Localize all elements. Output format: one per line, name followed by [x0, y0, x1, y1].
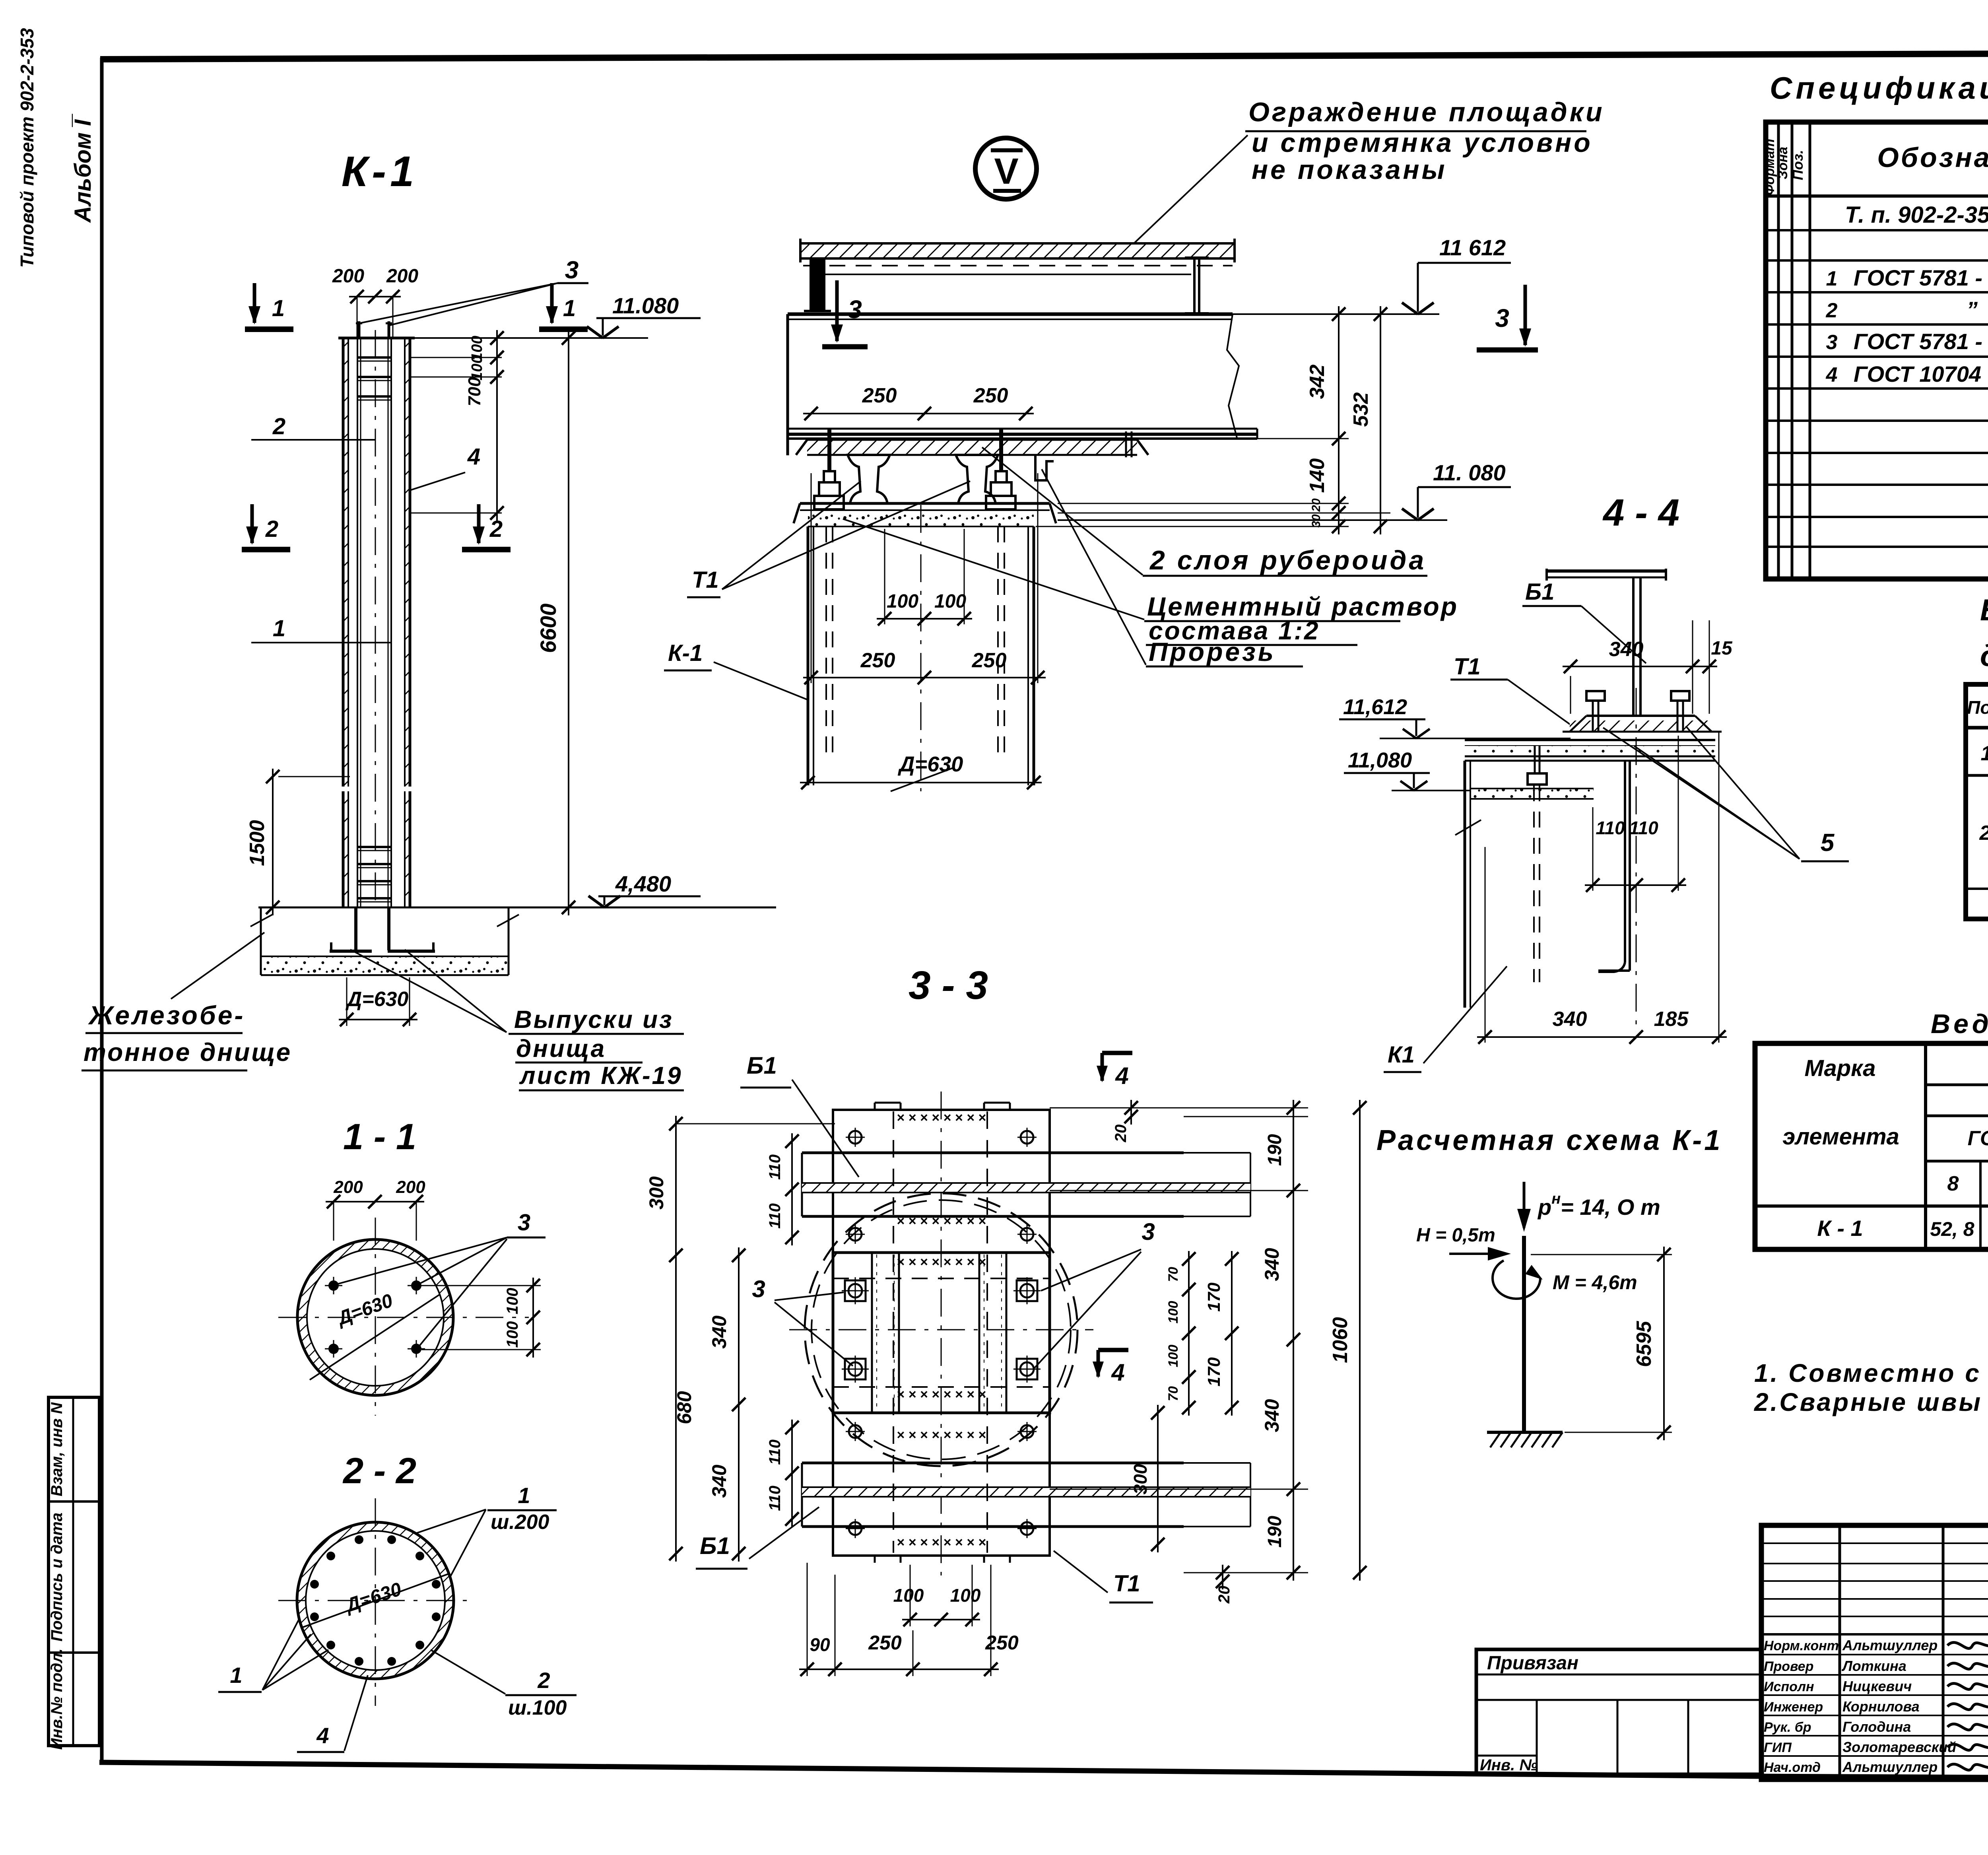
3-3 section marker 4 top	[1102, 1051, 1132, 1055]
svg-text:Выпуски из: Выпуски из	[514, 1006, 674, 1033]
svg-text:110: 110	[766, 1439, 784, 1465]
svg-text:2: 2	[1979, 822, 1988, 845]
svg-text:Ограждение площадки: Ограждение площадки	[1248, 97, 1605, 127]
beam B1 bottom flange	[788, 428, 1257, 430]
column K-1 centerline	[375, 330, 376, 907]
svg-text:Ведомость стержней: Ведомость стержней	[1980, 593, 1988, 627]
svg-text:Взам, инв N: Взам, инв N	[48, 1402, 66, 1496]
3-3 stiffener plate verticals with weld seams	[871, 1253, 873, 1413]
svg-text:1: 1	[272, 295, 285, 321]
svg-text:4 - 4: 4 - 4	[1602, 491, 1679, 534]
section marker 3 left	[835, 280, 839, 341]
svg-text:ГОСТ 10704 - 76*: ГОСТ 10704 - 76*	[1854, 361, 1988, 387]
svg-text:340: 340	[1609, 638, 1644, 661]
svg-text:170: 170	[1204, 1282, 1224, 1312]
3-3 base plate square	[833, 1253, 1050, 1413]
svg-text:300: 300	[1130, 1464, 1151, 1494]
column cap plate with bent edges	[794, 503, 800, 523]
scheme column bar	[1522, 1236, 1526, 1432]
svg-text:100: 100	[934, 591, 966, 612]
svg-text:и стремянка условно: и стремянка условно	[1252, 128, 1593, 158]
4-4 I-beam B1 end view top flange	[1547, 569, 1666, 573]
3-3 hidden tube circles dashed	[805, 1193, 1077, 1466]
svg-text:К-1: К-1	[342, 147, 418, 195]
svg-text:2.Сварные швы приняты hш =: 2.Сварные швы приняты hш = 6 мм.	[1754, 1388, 1988, 1416]
svg-text:Типовой проект 902-2-353: Типовой проект 902-2-353	[17, 28, 37, 268]
3-3 lower paddle plate	[833, 1413, 1050, 1556]
3-3 beam B1 bottom hatched strip	[802, 1487, 1250, 1497]
stirrup rungs bottom of column	[357, 846, 392, 848]
svg-text:Альтшуллер: Альтшуллер	[1842, 1759, 1938, 1775]
svg-text:90: 90	[810, 1634, 830, 1655]
stud right end	[1125, 431, 1127, 457]
svg-text:Т. п. 902-2-353-КЖ-19: Т. п. 902-2-353-КЖ-19	[1845, 202, 1988, 228]
level mark 11.080 node view	[1058, 519, 1447, 521]
svg-text:1: 1	[518, 1483, 530, 1508]
svg-text:Н = 0,5т: Н = 0,5т	[1416, 1225, 1495, 1246]
svg-text:3: 3	[1142, 1218, 1155, 1245]
svg-text:Д=630: Д=630	[898, 752, 963, 776]
svg-text:2: 2	[265, 516, 278, 542]
svg-text:Б1: Б1	[747, 1052, 777, 1079]
svg-text:V: V	[994, 151, 1018, 192]
scheme H arrow	[1449, 1253, 1506, 1255]
svg-text:3: 3	[1826, 331, 1838, 354]
svg-text:× × × × × × × ×: × × × × × × × ×	[897, 1428, 986, 1443]
leader from note to platform	[1134, 135, 1248, 243]
specification table grid	[1766, 122, 1988, 579]
svg-text:М = 4,6т: М = 4,6т	[1553, 1271, 1637, 1294]
4-4 bolts both sides of web	[1592, 701, 1594, 732]
svg-text:200: 200	[333, 1177, 363, 1197]
3-3 anchor bolt lower-right	[1017, 1359, 1037, 1379]
svg-text:100: 100	[504, 1288, 521, 1315]
dimension 6600 vertical	[568, 330, 569, 915]
svg-text:1500: 1500	[246, 820, 269, 866]
column tube walls below cap	[807, 526, 810, 785]
svg-text:2 - 2: 2 - 2	[342, 1451, 416, 1491]
level mark 11.612 node view	[1233, 313, 1439, 315]
svg-text:4: 4	[1111, 1359, 1124, 1386]
svg-text:4,480: 4,480	[615, 871, 671, 896]
foundation slab speckle band	[262, 956, 507, 974]
svg-text:250: 250	[860, 649, 895, 672]
svg-text:1: 1	[563, 295, 576, 321]
sheet frame bottom border	[99, 1762, 1988, 1780]
dimension 532 vertical	[1380, 306, 1381, 534]
svg-text:190: 190	[1264, 1516, 1285, 1548]
4-4 centerline	[1636, 688, 1637, 1030]
3-3 left dimension 110 110 upper	[791, 1133, 793, 1245]
3-3 lower paddle bolt holes	[849, 1425, 862, 1438]
svg-text:Т1: Т1	[692, 567, 719, 593]
section 1-1 anchor bars (4 dots)	[328, 1280, 339, 1291]
slab corner break marks	[250, 915, 272, 927]
column K-1 left wall (tube) with hatch	[342, 338, 345, 787]
section 2-2 centerlines	[278, 1600, 471, 1601]
svg-text:2 слоя рубероида: 2 слоя рубероида	[1149, 545, 1426, 575]
svg-text:200: 200	[332, 266, 364, 287]
column centerline node V	[920, 505, 922, 791]
svg-text:110: 110	[766, 1203, 784, 1229]
svg-text:Лоткина: Лоткина	[1841, 1658, 1906, 1674]
svg-text:100: 100	[893, 1585, 924, 1606]
sheet frame top border	[100, 52, 1988, 59]
svg-text:К1: К1	[1388, 1042, 1415, 1068]
svg-text:Т1: Т1	[1113, 1571, 1140, 1597]
extension line column top right	[415, 337, 648, 339]
svg-text:К-1: К-1	[668, 640, 703, 666]
svg-text:11. 080: 11. 080	[1433, 460, 1506, 485]
svg-text:100: 100	[950, 1585, 981, 1606]
3-3 beam B1 top crossing	[802, 1152, 1184, 1154]
4-4 inner concrete speckled band	[1470, 789, 1594, 799]
svg-text:250: 250	[972, 649, 1007, 672]
svg-text:ГОСТ 5781 - 81: ГОСТ 5781 - 81	[1854, 329, 1988, 354]
bearing plate hatched under beam	[807, 440, 1137, 455]
attachment stamp box Привязан	[1476, 1649, 1761, 1774]
svg-text:Альтшуллер: Альтшуллер	[1842, 1637, 1938, 1653]
3-3 anchor bolt lower-left	[845, 1359, 866, 1379]
slot bracket right (прорезь)	[1035, 455, 1054, 480]
svg-text:20: 20	[1112, 1125, 1130, 1143]
4-4 anchor bolt dashed	[1533, 785, 1535, 982]
svg-text:Зона: Зона	[1775, 147, 1790, 179]
svg-text:140: 140	[1306, 458, 1329, 493]
svg-text:100: 100	[887, 591, 918, 612]
svg-text:100: 100	[504, 1321, 521, 1348]
platform rail line	[825, 274, 1191, 275]
svg-text:ш.200: ш.200	[491, 1511, 549, 1534]
platform hidden edge dashed	[803, 265, 1233, 266]
svg-text:днища: днища	[516, 1035, 606, 1062]
svg-text:Прорезь: Прорезь	[1149, 637, 1276, 666]
cement mortar layer (speckled)	[808, 513, 1034, 526]
section marker 3 right	[1524, 285, 1527, 345]
svg-text:Марка: Марка	[1804, 1055, 1875, 1081]
svg-text:× × × × × × × ×: × × × × × × × ×	[897, 1535, 986, 1550]
svg-text:Альбом I̅: Альбом I̅	[70, 113, 96, 223]
svg-text:190: 190	[1264, 1134, 1285, 1166]
svg-text:Рук. бр: Рук. бр	[1764, 1720, 1811, 1735]
svg-text:11 612: 11 612	[1439, 235, 1506, 260]
svg-text:ГОСТ 5781 - 81: ГОСТ 5781 - 81	[1854, 265, 1988, 290]
platform edge channel left (dark section)	[810, 258, 825, 311]
svg-text:К - 1: К - 1	[1817, 1216, 1863, 1241]
column K-1 rebar cage verticals	[357, 338, 358, 907]
section marker 1 left	[253, 283, 256, 323]
svg-text:× × × × × × × ×: × × × × × × × ×	[897, 1110, 986, 1125]
extension lines for beam depth dims	[1257, 438, 1349, 439]
title block revision rows	[1761, 1542, 1988, 1544]
svg-text:110: 110	[1629, 818, 1658, 838]
svg-text:110: 110	[766, 1154, 784, 1180]
svg-text:× × × × × × × ×: × × × × × × × ×	[897, 1387, 986, 1402]
4-4 dimension 340 / 15 top	[1570, 676, 1571, 714]
svg-text:Исполн: Исполн	[1764, 1679, 1814, 1694]
svg-text:110: 110	[1596, 818, 1625, 838]
node mark circle V	[975, 138, 1037, 199]
4-4 vertical plate (knife) with curve	[1624, 761, 1626, 962]
3-3 upper paddle bolt holes	[849, 1131, 862, 1144]
svg-text:Золотаревский: Золотаревский	[1842, 1739, 1956, 1755]
sheet frame left border	[100, 58, 104, 1762]
svg-text:340: 340	[1261, 1399, 1283, 1432]
svg-text:700: 700	[465, 377, 484, 406]
svg-text:Норм.конт: Норм.конт	[1764, 1638, 1839, 1653]
svg-text:ш.100: ш.100	[508, 1696, 567, 1719]
section marker 2 left	[250, 504, 254, 543]
svg-text:2: 2	[537, 1668, 550, 1693]
svg-text:3 - 3: 3 - 3	[909, 963, 988, 1008]
platform edge I-beam right (outline section)	[1185, 256, 1209, 259]
scheme moment arc M=4,6т	[1493, 1261, 1540, 1299]
svg-text:5: 5	[1821, 829, 1835, 857]
svg-text:Железобе-: Железобе-	[88, 1000, 245, 1030]
svg-text:Инв.№ подл.: Инв.№ подл.	[48, 1649, 66, 1750]
svg-text:”: ”	[1967, 297, 1978, 322]
svg-text:2: 2	[272, 414, 285, 439]
svg-text:200: 200	[386, 266, 418, 287]
3-3 left dimension 110 110 lower	[791, 1420, 793, 1527]
svg-text:Д=630: Д=630	[346, 988, 409, 1011]
svg-text:340: 340	[708, 1315, 730, 1349]
svg-text:Привязан: Привязан	[1487, 1653, 1578, 1674]
svg-text:лист КЖ-19: лист КЖ-19	[519, 1062, 683, 1090]
section 1-1 centerlines	[278, 1317, 529, 1318]
svg-text:Т1: Т1	[1454, 654, 1481, 680]
svg-text:4: 4	[316, 1723, 329, 1748]
svg-text:532: 532	[1349, 392, 1373, 427]
svg-text:170: 170	[1204, 1357, 1224, 1387]
svg-text:11,080: 11,080	[1348, 748, 1412, 772]
4-4 column cap plate	[1465, 739, 1715, 741]
stirrup rungs top of column	[357, 356, 392, 359]
T1 rail stool right	[956, 455, 998, 503]
svg-text:Расчетная схема К-1: Расчетная схема К-1	[1376, 1125, 1722, 1156]
svg-text:Корнилова: Корнилова	[1842, 1698, 1920, 1715]
4-4 stool top plate hatched	[1586, 715, 1695, 717]
svg-text:Инв. №: Инв. №	[1480, 1756, 1538, 1774]
rebar stubs above column top	[358, 321, 361, 338]
bearing saddle edges bent down	[796, 440, 807, 455]
section 1-1 tube ring with hatch	[297, 1239, 453, 1395]
svg-text:70: 70	[1166, 1386, 1181, 1401]
4-4 dimension 110 110	[1592, 807, 1594, 891]
anchor bolt left with stacked nuts	[827, 429, 831, 471]
section 1-1 dimension 100 100 right	[421, 1285, 541, 1286]
svg-text:250: 250	[862, 384, 897, 407]
dimension 342/140/20/30 vertical	[1338, 306, 1340, 534]
svg-text:11,612: 11,612	[1343, 695, 1407, 719]
svg-text:250: 250	[868, 1632, 902, 1654]
svg-text:250: 250	[985, 1632, 1019, 1654]
svg-text:30: 30	[1310, 514, 1323, 528]
svg-text:100: 100	[1166, 1301, 1181, 1324]
svg-text:Поз.: Поз.	[1967, 697, 1988, 718]
svg-text:Ведомость расхода стали: Ведомость расхода стали	[1931, 1009, 1988, 1039]
svg-text:2: 2	[489, 516, 503, 542]
svg-text:Подпись и дата: Подпись и дата	[48, 1513, 66, 1641]
3-3 hidden plate edges dashed verticals	[893, 1111, 894, 1553]
4-4 I-beam web	[1632, 577, 1635, 716]
dimension 1500 vertical	[278, 776, 350, 777]
column break mark	[891, 767, 954, 791]
3-3 upper paddle plate	[833, 1110, 1050, 1253]
svg-text:110: 110	[766, 1486, 784, 1511]
svg-text:не показаны: не показаны	[1252, 155, 1447, 185]
bar schedule grid	[1966, 684, 1988, 919]
svg-text:300: 300	[645, 1176, 668, 1210]
3-3 middle dimension 300	[1157, 1405, 1159, 1552]
svg-text:70: 70	[1166, 1267, 1181, 1282]
title block signature rows	[1761, 1654, 1988, 1655]
section 2-2 diameter line D=630	[303, 1574, 448, 1627]
3-3 beam B1 top hatched strip	[802, 1183, 1250, 1193]
svg-text:Обозначение: Обозначение	[1877, 142, 1988, 173]
svg-text:ГИП: ГИП	[1764, 1740, 1792, 1755]
section 2-2 spiral bars (12 dots)	[432, 1612, 441, 1621]
svg-text:4: 4	[467, 444, 480, 470]
scheme dimension 6595	[1531, 1254, 1672, 1255]
svg-text:Нач.отд: Нач.отд	[1764, 1760, 1821, 1775]
svg-text:340: 340	[708, 1465, 730, 1498]
foundation slab body	[260, 907, 262, 975]
3-3 right dimension 1060 overall	[1359, 1100, 1361, 1581]
svg-text:11.080: 11.080	[612, 293, 679, 318]
svg-text:100: 100	[1166, 1345, 1181, 1367]
svg-text:тонное днище: тонное днище	[83, 1038, 292, 1066]
dimension 100 100 700 right of column	[415, 338, 504, 339]
beam B1 right break line	[1227, 314, 1239, 439]
section 2-2 tube ring with hatch	[297, 1522, 454, 1679]
svg-text:3: 3	[565, 256, 579, 284]
title block left columns	[1839, 1525, 1841, 1779]
svg-text:4: 4	[1826, 363, 1838, 387]
svg-text:3: 3	[752, 1276, 765, 1302]
svg-text:Ницкевич: Ницкевич	[1842, 1678, 1912, 1694]
svg-text:1060: 1060	[1329, 1317, 1352, 1363]
svg-text:20: 20	[1310, 498, 1323, 512]
4-4 dimension 340 185 bottom	[1485, 847, 1486, 1043]
beam B1 web outline	[786, 314, 789, 455]
svg-text:Голодина: Голодина	[1842, 1719, 1911, 1735]
svg-text:1. Совместно с данным см.: 1. Совместно с данным см. листы КЖ 6, 17	[1754, 1359, 1988, 1387]
anchor bolt right with stacked nuts	[999, 429, 1003, 471]
svg-text:2: 2	[1826, 299, 1838, 322]
svg-text:3: 3	[1495, 304, 1509, 332]
svg-text:15: 15	[1711, 638, 1733, 659]
svg-text:52, 8: 52, 8	[1930, 1218, 1974, 1240]
column K-1 top edge	[338, 337, 415, 340]
svg-text:20: 20	[1215, 1586, 1233, 1604]
svg-text:Б1: Б1	[1525, 579, 1554, 605]
svg-text:1: 1	[273, 616, 285, 641]
platform checker plate strip	[800, 243, 1235, 258]
svg-text:1 - 1: 1 - 1	[343, 1117, 416, 1157]
anchor bolts dashed inside column	[825, 526, 827, 756]
3-3 beam B1 bottom crossing	[802, 1462, 1184, 1465]
section marker 2 right	[477, 504, 481, 543]
svg-text:Б1: Б1	[700, 1533, 730, 1559]
3-3 bottom dimension 100 100	[910, 1565, 911, 1626]
svg-text:250: 250	[973, 384, 1008, 407]
svg-text:340: 340	[1261, 1248, 1283, 1281]
svg-text:4: 4	[1115, 1062, 1128, 1089]
svg-text:× × × × × × × ×: × × × × × × × ×	[897, 1255, 986, 1270]
svg-text:Спецификация элементов колон: Спецификация элементов колонны К-1	[1770, 70, 1988, 105]
3-3 anchor bolt upper-left	[845, 1280, 866, 1301]
beam B1 top flange	[788, 313, 1233, 316]
svg-text:Инженер: Инженер	[1764, 1700, 1823, 1715]
svg-text:342: 342	[1306, 365, 1329, 399]
margin stamp box: Взам.инв.N / Подпись и дата / Инв.N подл.	[49, 1397, 99, 1746]
svg-text:3: 3	[848, 295, 862, 324]
svg-text:185: 185	[1654, 1008, 1689, 1031]
column K-1 right wall (tube)	[409, 338, 412, 787]
svg-text:для колонны К-1: для колонны К-1	[1980, 639, 1988, 673]
steel table grid	[1755, 1043, 1988, 1249]
3-3 bottom dimension 90 250 250	[807, 1563, 808, 1676]
4-4 cement mortar speckled	[1465, 746, 1715, 757]
svg-text:8: 8	[1947, 1172, 1959, 1195]
scheme ground line with hatch	[1487, 1431, 1563, 1434]
rebar anchors into slab with hooks	[354, 907, 357, 950]
T1 rail stool left	[848, 455, 890, 503]
3-3 anchor bolt upper-right	[1017, 1280, 1037, 1301]
svg-text:3: 3	[518, 1210, 530, 1235]
3-3 hidden plate horizontals dashed	[833, 1278, 1050, 1279]
4-4 wall break mark	[1455, 820, 1481, 835]
4-4 column wall left	[1464, 761, 1466, 1008]
3-3 middle dimension 70 100 100 70	[1188, 1251, 1190, 1416]
section marker 1 right	[550, 283, 554, 323]
dimension D=630 below slab	[346, 977, 348, 1026]
3-3 right dimension 20 top	[1050, 1107, 1308, 1109]
4-4 bolt head under plate	[1534, 746, 1536, 773]
3-3 middle dimension 170 170	[1231, 1251, 1233, 1416]
svg-text:100: 100	[469, 355, 485, 380]
svg-text:1: 1	[1981, 742, 1988, 765]
scheme load arrow P	[1523, 1182, 1526, 1228]
svg-text:6600: 6600	[536, 604, 561, 653]
3-3 right dimension 190/340/340/190	[1050, 1190, 1308, 1191]
svg-text:Провер: Провер	[1764, 1659, 1813, 1674]
svg-text:340: 340	[1553, 1008, 1587, 1031]
title block outer frame	[1761, 1525, 1988, 1779]
section 1-1 diameter line D=630	[310, 1295, 439, 1380]
svg-text:680: 680	[673, 1391, 695, 1424]
svg-text:200: 200	[396, 1177, 425, 1197]
svg-text:Поз.: Поз.	[1790, 150, 1806, 180]
svg-text:1: 1	[230, 1663, 242, 1688]
foundation slab top line / level 4.480 line	[258, 907, 776, 909]
3-3 centerlines	[789, 1329, 1093, 1331]
svg-text:6595: 6595	[1633, 1321, 1656, 1367]
3-3 left dimension 340 340	[738, 1247, 740, 1562]
svg-text:ГОСТ 5781- 81: ГОСТ 5781- 81	[1968, 1127, 1988, 1150]
svg-text:элемента: элемента	[1782, 1124, 1899, 1150]
3-3 left dimension chain 300/680	[676, 1123, 835, 1125]
3-3 section marker 4 middle	[1098, 1348, 1128, 1352]
3-3 right dimension 20 bottom	[1222, 1565, 1223, 1589]
svg-text:1: 1	[1826, 267, 1838, 290]
